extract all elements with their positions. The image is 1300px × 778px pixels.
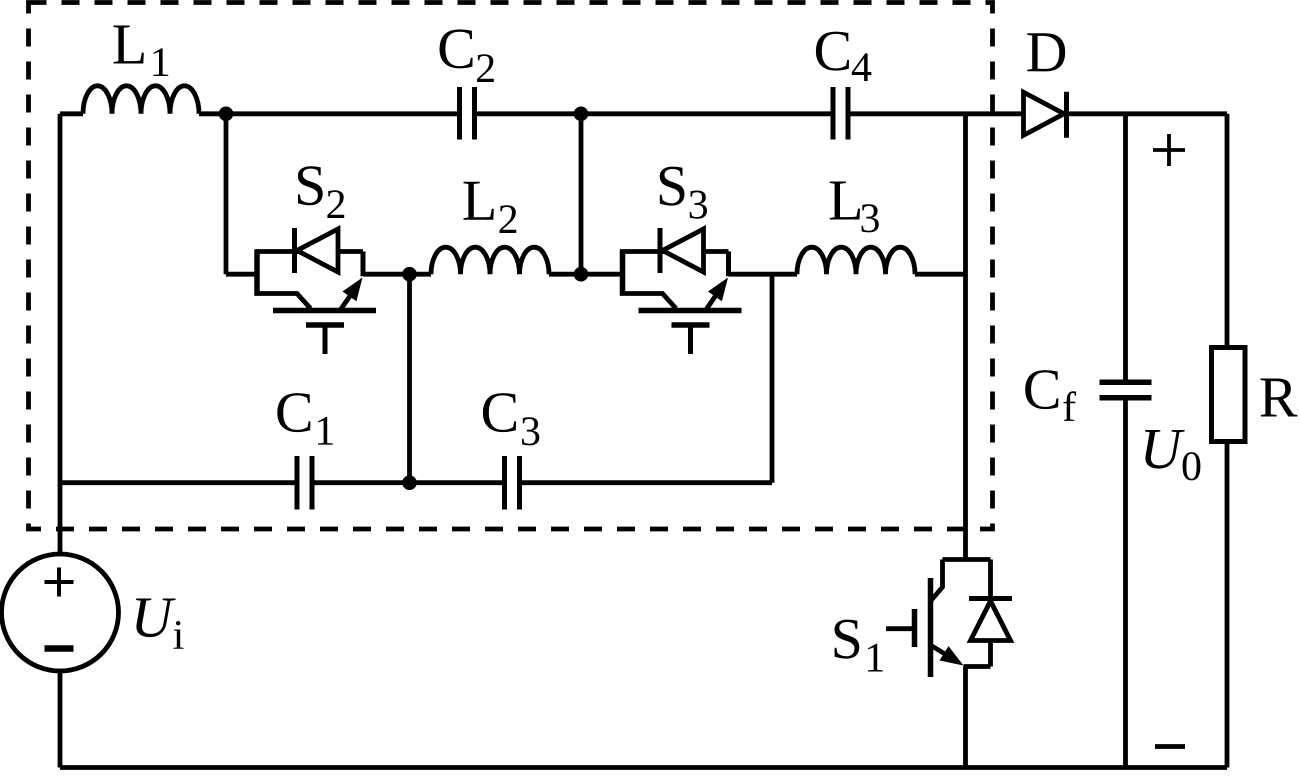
capacitor C2 — [460, 87, 475, 140]
capacitor C4 — [833, 87, 848, 140]
wire branch x=581 — [579, 114, 584, 274]
label Ui — [136, 599, 184, 649]
transistor S3 (IGBT with antiparallel diode) — [620, 228, 742, 354]
label L2 — [464, 182, 517, 233]
wire left rail — [58, 114, 63, 768]
label Cf — [1025, 370, 1076, 421]
label S1 — [835, 620, 883, 672]
label L3 — [830, 182, 879, 233]
label U0 — [1145, 430, 1200, 480]
wire top rail y=113 — [60, 111, 1227, 116]
label C1 — [277, 393, 333, 445]
output minus sign — [1155, 744, 1185, 749]
capacitor Cf — [1100, 382, 1152, 398]
wire branch x=1125.5 (Cf leg) — [1123, 114, 1128, 768]
wire mid rail y=273.5 — [226, 272, 966, 277]
label L1 — [114, 26, 169, 77]
wire bottom rail y=767.5 — [60, 765, 1227, 770]
label R — [1261, 379, 1298, 417]
wire right rail x=1227 — [1225, 114, 1230, 768]
resistor R — [1212, 348, 1246, 442]
label C2 — [440, 29, 494, 82]
wire branch x=965.5 (S1 leg) — [963, 114, 968, 768]
inductor L2 — [431, 247, 549, 274]
label S3 — [660, 167, 707, 219]
wire branch x=226 — [224, 114, 229, 274]
node junction dots — [219, 107, 589, 491]
label D — [1027, 33, 1065, 71]
wire branch x=409.5 — [407, 274, 412, 483]
wire bottom inner rail y=483 — [60, 480, 772, 485]
label C4 — [816, 32, 871, 81]
diode D — [1024, 92, 1067, 138]
wire branch x=772 — [770, 274, 775, 483]
dashed box (resonant network boundary) — [29, 3, 993, 530]
transistor S1 (IGBT with antiparallel diode) — [886, 560, 1012, 678]
inductor L3 — [797, 247, 915, 274]
label C3 — [483, 393, 539, 445]
capacitor C1 — [297, 456, 312, 510]
capacitor C3 — [505, 456, 520, 510]
source Ui — [2, 554, 119, 671]
label S2 — [298, 166, 344, 218]
output plus sign — [1153, 134, 1185, 166]
inductor L1 — [83, 86, 199, 114]
transistor S2 (IGBT with antiparallel diode) — [255, 228, 377, 354]
